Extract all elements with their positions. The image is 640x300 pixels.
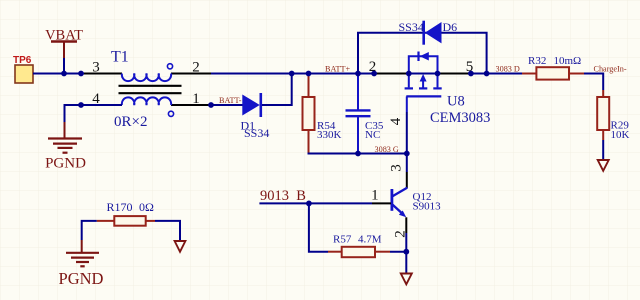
secondary winding: [122, 97, 171, 105]
wire R29 to ground: [602, 140, 604, 160]
diode D6: [399, 20, 458, 45]
pin 1 base lead: [372, 202, 391, 204]
node junction C35 top: [355, 71, 361, 77]
node junction C35 bottom: [355, 151, 361, 157]
svg-text:VBAT: VBAT: [45, 28, 83, 44]
svg-text:PGND: PGND: [45, 156, 86, 172]
svg-text:U8: U8: [447, 94, 465, 110]
source contact right: [437, 74, 439, 88]
ground PGND island: [59, 240, 104, 288]
svg-text:D6: D6: [443, 20, 458, 34]
svg-text:R32: R32: [528, 55, 546, 67]
base bar: [390, 189, 393, 211]
svg-text:3083 D: 3083 D: [496, 65, 520, 74]
wire top rail T1 to U8: [211, 73, 374, 75]
wire 3083_G rail: [308, 153, 407, 155]
node junction pin2 end: [371, 71, 377, 77]
wire T1 pin4 branch to ground: [65, 105, 123, 122]
pin 4 lead: [84, 104, 122, 106]
node junction pin5 end: [468, 71, 474, 77]
svg-text:10K: 10K: [611, 129, 630, 141]
svg-text:330K: 330K: [317, 129, 342, 141]
svg-text:R57: R57: [333, 234, 352, 246]
body diode: [417, 52, 419, 62]
svg-text:ChargeIn-: ChargeIn-: [594, 64, 627, 73]
resistor R29: [597, 90, 629, 141]
svg-text:R170: R170: [107, 200, 133, 214]
svg-text:BATT-: BATT-: [219, 96, 242, 105]
wire pin5 to R32: [471, 73, 523, 75]
wire rail to Q12 collector: [406, 154, 408, 173]
diode D1: [241, 93, 270, 140]
pin 2 emitter lead: [405, 217, 407, 233]
wire D1 to top rail: [262, 74, 292, 106]
node junction R54 top: [306, 71, 312, 77]
wire gate lead down: [406, 112, 408, 154]
svg-text:4.7M: 4.7M: [358, 234, 382, 246]
svg-text:9013 B: 9013 B: [260, 188, 306, 204]
power port VBAT: [45, 28, 83, 74]
wire D6 bypass loop: [358, 33, 487, 74]
wire base branch down: [309, 203, 328, 251]
node junction loop right bottom: [484, 71, 490, 77]
wire R32 to R29 corner: [584, 74, 603, 91]
testpoint TP6: [13, 55, 33, 83]
transistor Q12: [371, 164, 441, 238]
pin 3 collector lead: [406, 172, 408, 188]
primary winding: [122, 74, 171, 82]
transformer T1: [84, 49, 211, 131]
wire T1 pin1 to D1: [211, 104, 243, 106]
node junction at pin1: [208, 102, 214, 108]
node junction at VBAT: [61, 71, 67, 77]
wire emitter down: [405, 233, 407, 273]
mosfet U8: [369, 52, 491, 127]
svg-text:0R×2: 0R×2: [114, 114, 147, 130]
wire base rail: [259, 202, 372, 204]
wire TP6 to T1 pin 3: [33, 73, 84, 75]
node junction U8 right: [435, 71, 441, 77]
svg-text:4: 4: [388, 117, 404, 125]
node junction emitter: [403, 249, 409, 255]
svg-text:CEM3083: CEM3083: [430, 110, 490, 126]
svg-text:S9013: S9013: [413, 201, 442, 213]
svg-text:TP6: TP6: [13, 55, 32, 66]
ground arrow R170: [175, 241, 186, 252]
resistor R54: [303, 74, 342, 154]
pin 3 lead: [84, 73, 122, 75]
svg-text:10mΩ: 10mΩ: [554, 55, 582, 67]
pin 5 lead: [438, 73, 471, 75]
substrate arrow: [419, 87, 427, 89]
body diode bracket: [409, 56, 438, 73]
channel segment: [409, 73, 438, 75]
svg-text:3083 G: 3083 G: [375, 145, 399, 154]
ground PGND left: [45, 122, 86, 172]
ground arrow R29: [598, 160, 609, 171]
wire R170 right branch: [155, 221, 180, 241]
svg-text:BATT+: BATT+: [325, 64, 350, 73]
emitter diagonal: [393, 205, 404, 215]
svg-text:SS34: SS34: [244, 126, 269, 140]
node junction loop left: [357, 32, 359, 34]
svg-text:1: 1: [192, 91, 200, 107]
node junction top-left: [78, 71, 84, 77]
pin 2 lead: [171, 73, 211, 75]
svg-text:1: 1: [371, 188, 379, 204]
collector diagonal: [393, 188, 408, 197]
ground arrow Q12: [401, 274, 412, 285]
node junction D1 riser: [289, 71, 295, 77]
polarity dot top: [167, 64, 172, 69]
wire R170 left branch: [82, 221, 97, 240]
svg-text:3: 3: [92, 60, 100, 76]
svg-text:0Ω: 0Ω: [139, 200, 154, 214]
svg-text:3: 3: [389, 164, 405, 172]
emitter arrow: [399, 211, 406, 218]
pin 1 lead: [171, 104, 211, 106]
wire R57 to emitter node: [390, 251, 406, 253]
gate plate: [406, 95, 441, 97]
pin 2 lead: [374, 73, 409, 75]
capacitor C35: [346, 74, 384, 154]
node junction base: [306, 201, 312, 207]
gate lead pin 4: [406, 96, 408, 112]
source contact left: [408, 74, 410, 88]
svg-text:NC: NC: [365, 129, 380, 141]
polarity dot bottom: [168, 111, 173, 116]
svg-text:T1: T1: [111, 49, 129, 66]
node junction U8 left: [406, 71, 412, 77]
svg-text:PGND: PGND: [59, 269, 104, 288]
resistor R32: [522, 55, 584, 80]
core line lower: [119, 92, 182, 94]
svg-text:SS34: SS34: [399, 20, 424, 34]
core line upper: [119, 85, 182, 87]
node junction gate rail: [404, 151, 410, 157]
resistor R57: [328, 234, 390, 258]
resistor R170: [97, 200, 155, 226]
node junction lower-left: [78, 102, 84, 108]
svg-text:2: 2: [192, 60, 200, 76]
